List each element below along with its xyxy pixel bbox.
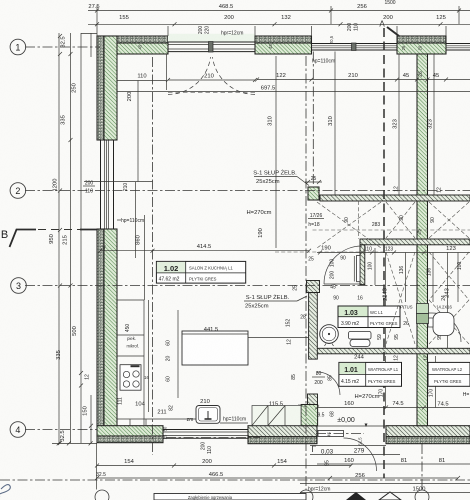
bottom total row 1500 [300,484,470,493]
pen scribble bottom left [0,485,10,497]
reinforced beam over salon y=195 [320,195,470,201]
WC west door post column [360,245,365,285]
grid bubble 4 [10,422,26,438]
section marker B [1,229,97,247]
wiatrolap L2 door arc [428,313,462,342]
interior load-bearing green wall vertical [417,54,428,426]
kitchen dims [118,310,336,454]
bottom dim row 466.5 [95,472,460,480]
grid axis line 3 [25,285,470,287]
grid axis line 4 [25,429,97,431]
under WC wall dims [354,355,429,361]
beam labels 17/26 [308,186,443,235]
axis centerline x=422 lower [421,444,423,490]
long dash-dot line bottom [0,479,470,481]
kitchen sink zm [196,406,220,424]
entrance threshold line [317,425,386,427]
bottom left short dim line [52,441,97,445]
bottom grid bubble right [415,490,429,500]
beam bracing dashed X zone 1 [317,202,469,248]
salon door dims [286,256,363,345]
WC dims [356,253,463,349]
dim row y79 under top windows [255,71,470,81]
left chain labels [49,36,95,441]
entrance door arc [318,431,344,437]
wiatrolap west door arc [317,372,340,395]
salon corner dim 110 [117,54,167,182]
S-1 label upper [253,170,322,186]
axis centerline x=152.5 [152,57,154,455]
room box 1.02 salon [156,261,245,283]
section line A vertical heavy dashed [383,28,385,478]
north/legend mark diamond [346,492,366,500]
wc washbasin round [320,325,339,346]
level mark 0.03 [313,446,334,456]
exterior bottom wall right segment [386,426,470,444]
cooktop [120,365,149,391]
level mark 0.00 [337,417,367,427]
exterior top wall segment 2 [255,36,312,54]
legend open triangle [379,492,401,500]
shaft boxes on green wall [417,304,429,324]
bottom grid bubble left [95,490,109,500]
axis centerline x=306 [305,56,307,490]
exterior bottom wall middle segment [248,426,317,444]
top window 2 hp=110 [312,43,398,51]
grid axis line 1 [25,46,100,48]
WC south wall [311,348,470,354]
bottom grid bubble middle [299,490,313,500]
title strip bottom [154,494,306,500]
section marker A top [379,20,399,37]
corridor dim row y252 [317,246,470,255]
top dim row 2 [88,15,470,26]
left wall window hp=110 [101,140,114,229]
wc toilet [349,332,372,347]
left window leader hp=110cm [84,182,153,250]
exterior left wall lower [97,229,117,426]
dashed beam edge lines [275,201,470,252]
top dim row 1 [88,0,470,13]
dim 697.5 [117,86,470,92]
kitchen length dim 860 [136,182,145,300]
salon to corridor door arc [324,246,362,284]
wiatrolap dims row [315,356,470,410]
top door dim 210 [166,74,257,83]
kitchen window centerline [166,437,260,439]
kitchen window bottom [163,430,248,439]
left dim chain vertical lines [58,33,97,490]
oven microwave labels [126,336,139,349]
fridge cabinets right of kitchen window [252,406,301,426]
bottom dim row 154/200/154 [95,459,353,468]
top window 3 right edge [446,44,470,51]
wc door leaf and arc [354,248,375,285]
grid axis line 2 [25,190,470,192]
wiatrolap west wall head block [307,281,320,293]
WC north wall [360,239,470,245]
exterior left wall upper [97,36,117,140]
wiatrolap west door post [308,394,318,405]
room box 1.01 wiatrolap [339,362,402,386]
room box 1.03 wc [338,306,400,328]
washbasin right of green wall [428,313,454,336]
wiatrolap door label 80/200 [291,371,334,386]
wiatrolap west wall [309,293,318,360]
rotated window size 200/220 [198,26,211,35]
kitchen counter edge lines [117,300,248,426]
grid bubble 2 [10,183,26,199]
bracing dashed X over WC zone [386,252,469,344]
exterior top wall segment 3 [397,36,446,54]
rotated window size 200/110 [347,23,360,32]
kitchen island [182,331,308,365]
exterior top wall segment 1 [97,36,168,54]
misc small rotated dims top-left corner [138,35,423,50]
room box wiatrolap L2 right edge [428,362,470,386]
entrance dims [310,446,470,466]
salon dim 414.5 [98,228,311,253]
exterior bottom wall left segment [97,426,163,443]
upper right vertical dims 310/323 [268,52,435,249]
top extension lines [97,6,459,36]
column S-1 at beam [308,187,319,200]
grid bubble 3 [11,278,27,294]
grid bubble 1 [10,39,26,55]
top window/door opening 210 [168,34,255,52]
S-1 label lower [244,294,307,310]
top double door swing arcs [168,57,255,94]
pilaster green block near entrance [301,405,318,426]
